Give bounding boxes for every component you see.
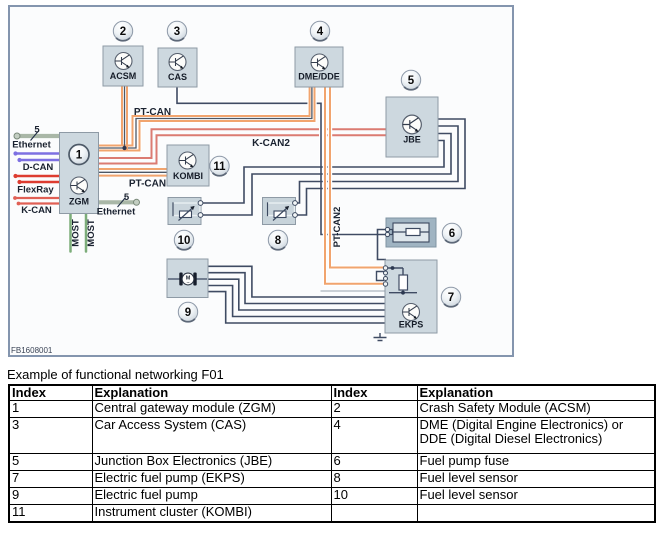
svg-text:DME/DDE: DME/DDE xyxy=(298,72,340,82)
svg-text:MOST: MOST xyxy=(86,219,97,247)
svg-text:K-CAN: K-CAN xyxy=(21,205,52,216)
svg-text:7: 7 xyxy=(448,292,454,304)
svg-text:10: 10 xyxy=(178,235,191,247)
svg-text:FB1608001: FB1608001 xyxy=(11,346,53,355)
svg-text:8: 8 xyxy=(275,235,282,247)
svg-text:ZGM: ZGM xyxy=(69,197,89,207)
svg-text:K-CAN2: K-CAN2 xyxy=(252,138,290,149)
svg-text:5: 5 xyxy=(408,75,415,87)
svg-text:PT-CAN: PT-CAN xyxy=(134,107,171,118)
svg-text:1: 1 xyxy=(76,150,83,162)
svg-text:5: 5 xyxy=(124,192,130,203)
svg-text:6: 6 xyxy=(449,228,455,240)
svg-text:2: 2 xyxy=(120,26,126,38)
svg-text:4: 4 xyxy=(317,26,324,38)
svg-text:ACSM: ACSM xyxy=(110,71,137,81)
svg-text:PT-CAN2: PT-CAN2 xyxy=(332,207,343,248)
svg-text:KOMBI: KOMBI xyxy=(173,171,203,181)
svg-text:~: ~ xyxy=(186,281,189,287)
svg-text:JBE: JBE xyxy=(403,135,421,145)
svg-text:11: 11 xyxy=(213,161,226,173)
svg-text:D-CAN: D-CAN xyxy=(23,162,54,173)
svg-text:EKPS: EKPS xyxy=(399,320,424,330)
svg-text:Ethernet: Ethernet xyxy=(12,140,51,151)
svg-text:3: 3 xyxy=(174,26,180,38)
svg-text:9: 9 xyxy=(185,307,191,319)
svg-text:FlexRay: FlexRay xyxy=(17,185,54,196)
svg-text:5: 5 xyxy=(34,125,40,136)
svg-text:Ethernet: Ethernet xyxy=(97,207,136,218)
svg-text:PT-CAN: PT-CAN xyxy=(129,179,166,190)
svg-text:MOST: MOST xyxy=(71,219,82,247)
svg-text:CAS: CAS xyxy=(168,72,187,82)
